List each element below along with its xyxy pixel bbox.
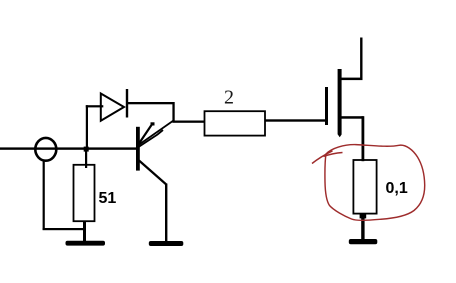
wire source down to resistor R3 xyxy=(362,116,365,161)
ground under R1 xyxy=(66,241,106,246)
resistor R3 body xyxy=(353,160,376,214)
resistor R2 body xyxy=(205,111,266,135)
wire resistor R1 bottom lead xyxy=(83,221,86,242)
transistor Q1 collector stroke main xyxy=(139,121,174,146)
annotation red overlap arc xyxy=(324,153,343,157)
wire collector to resistor R2 xyxy=(172,121,205,123)
svg-text:2: 2 xyxy=(224,87,234,109)
wire junction up to diode anode xyxy=(86,105,88,148)
svg-text:0,1: 0,1 xyxy=(386,180,408,197)
resistor R1 body xyxy=(74,165,95,221)
wire corner down to collector node xyxy=(172,102,174,122)
wire diode anode horizontal xyxy=(86,105,104,107)
wire resistor R2 to gate xyxy=(265,119,326,121)
wire bottom horizontal to resistor lead xyxy=(43,228,86,230)
wire emitter down xyxy=(165,184,167,243)
ground under Q1 emitter xyxy=(149,241,184,246)
wire input horizontal xyxy=(0,147,137,149)
transistor Q1 base bar xyxy=(136,127,140,171)
diode D1 triangle xyxy=(101,94,124,121)
diode D1 cathode bar xyxy=(126,89,128,118)
source circle xyxy=(35,138,56,161)
ground under R3 xyxy=(349,239,378,244)
transistor Q1 collector stroke short xyxy=(139,124,153,144)
wire source horizontal xyxy=(340,116,364,119)
node resistor R3 bottom blob xyxy=(360,214,367,219)
wire drain horizontal xyxy=(340,78,363,81)
annotation red loop xyxy=(325,145,425,221)
node A junction dot xyxy=(84,147,89,152)
wire resistor R3 bottom lead xyxy=(361,213,364,240)
wire junction to resistor R1 top xyxy=(85,148,87,168)
transistor Q2 channel bar xyxy=(338,69,342,135)
transistor Q1 collector stroke hooked xyxy=(139,130,164,147)
wire diode cathode horizontal xyxy=(127,102,175,104)
wire drain up xyxy=(360,38,362,80)
transistor Q1 emitter diagonal xyxy=(139,161,166,185)
svg-text:51: 51 xyxy=(99,190,117,207)
transistor Q2 gate bar xyxy=(325,87,328,125)
annotation red tail xyxy=(312,151,333,164)
wire circle bottom down xyxy=(43,161,45,231)
transistor Q1 collector stroke blob xyxy=(151,122,155,125)
